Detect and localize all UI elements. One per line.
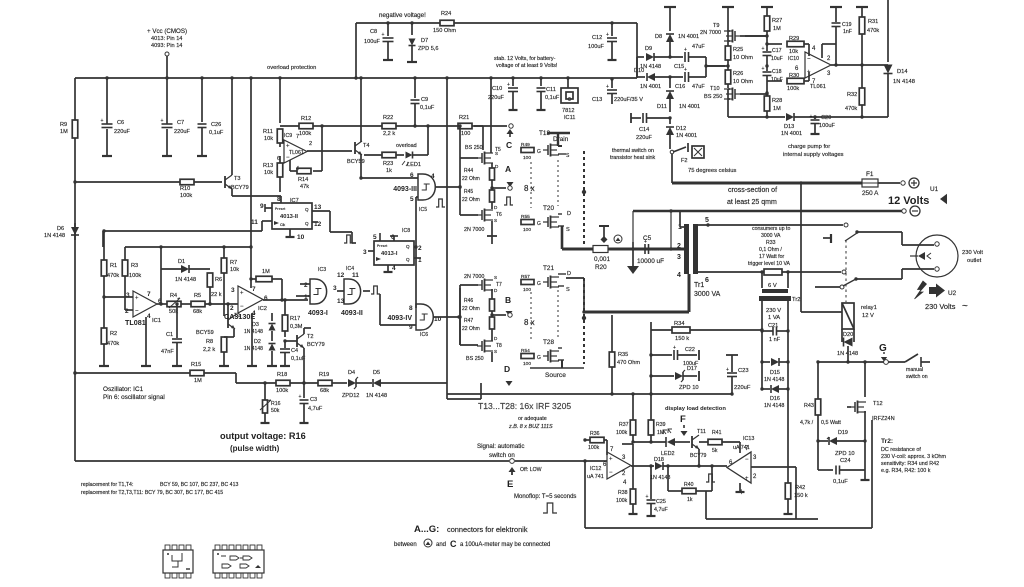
svg-text:6: 6 (705, 277, 709, 284)
diode D13 (781, 113, 817, 137)
wire T5 gate (458, 124, 478, 158)
resistor R10 (180, 179, 222, 199)
svg-text:+: + (135, 295, 139, 301)
svg-text:LED1: LED1 (407, 162, 421, 168)
diode D2 (244, 331, 276, 362)
svg-text:BCY 59, BC 107, BC 237, BC 413: BCY 59, BC 107, BC 237, BC 413 (160, 482, 238, 488)
wire IC7 top (277, 196, 299, 204)
ground C3 (300, 419, 309, 423)
svg-text:1N 4148: 1N 4148 (764, 403, 784, 409)
wire relay to G (846, 346, 849, 364)
svg-text:11: 11 (352, 272, 359, 279)
diode D10 (634, 57, 683, 90)
node D (492, 352, 513, 386)
svg-text:+: + (609, 457, 613, 463)
svg-text:4,7uF: 4,7uF (308, 406, 323, 412)
diode D16 (760, 362, 789, 409)
capacitor C16 (675, 67, 706, 90)
diode D1 (161, 247, 210, 283)
ground C10 (509, 106, 518, 110)
svg-text:1N 4001: 1N 4001 (640, 84, 661, 90)
svg-text:replacement for T1,T4:: replacement for T1,T4: (81, 482, 133, 488)
switch upper (823, 223, 859, 243)
svg-text:R21: R21 (459, 115, 469, 121)
svg-text:C18: C18 (772, 69, 782, 75)
svg-text:R13: R13 (263, 163, 273, 169)
gate 4093-IV IC6 (387, 304, 441, 338)
wire R27 gate (745, 35, 767, 37)
svg-text:B: B (505, 295, 511, 305)
IC7 pin10 (290, 229, 305, 241)
svg-text:2N 7000: 2N 7000 (464, 227, 484, 233)
svg-text:C: C (506, 140, 512, 150)
svg-text:10k: 10k (264, 170, 273, 176)
svg-text:1M: 1M (773, 26, 781, 32)
svg-text:47k: 47k (300, 184, 309, 190)
svg-text:BCY59: BCY59 (196, 330, 214, 336)
svg-text:C24: C24 (840, 458, 851, 464)
IC7 pin13 (312, 204, 330, 211)
wire T5 drain top (0, 0, 1, 1)
label watt (821, 420, 841, 426)
resistor R23 (364, 152, 404, 174)
svg-text:IC11: IC11 (564, 115, 575, 121)
display load label (665, 406, 726, 412)
wire bias bus left (73, 371, 190, 374)
IC7 pin11 (251, 219, 272, 226)
svg-text:charge pump for: charge pump for (788, 144, 830, 150)
svg-text:IC12: IC12 (590, 466, 601, 472)
svg-text:IC13: IC13 (743, 436, 754, 442)
resistor R38 (616, 444, 636, 510)
svg-text:3: 3 (126, 292, 130, 299)
wire charge out right (815, 115, 888, 118)
svg-text:10: 10 (297, 234, 305, 241)
driver box corner (447, 383, 481, 399)
wire top supply bus (75, 77, 568, 79)
wire IC7 Q13 route (330, 211, 356, 243)
ground C1 (172, 362, 182, 366)
svg-text:U2: U2 (948, 290, 957, 297)
svg-text:IC2: IC2 (258, 306, 267, 312)
ground arrow C5 (627, 249, 639, 274)
svg-text:R36: R36 (590, 431, 600, 437)
svg-text:220uF: 220uF (488, 95, 504, 101)
svg-text:−: − (609, 470, 613, 476)
wire IC2 output (263, 298, 308, 301)
wire C15 C16 join (704, 57, 725, 77)
resistor R17 (282, 298, 303, 337)
svg-text:+: + (762, 46, 765, 52)
resistor R15 (190, 362, 236, 384)
svg-text:A...G:: A...G: (414, 524, 439, 535)
charge pump label (783, 144, 844, 158)
overload protection label (267, 65, 316, 71)
svg-text:0,5 Watt: 0,5 Watt (821, 420, 841, 426)
230 Volts label (925, 301, 968, 312)
resistor R27 (761, 7, 782, 40)
svg-text:220uF: 220uF (734, 385, 751, 391)
wire to outlet top (857, 232, 934, 245)
resistor R40 (668, 466, 712, 503)
svg-text:C6: C6 (117, 120, 124, 126)
ground R8 (219, 362, 229, 366)
svg-text:Preset: Preset (275, 207, 286, 211)
svg-text:R20: R20 (595, 264, 607, 271)
svg-text:ZPD 10: ZPD 10 (679, 385, 699, 391)
svg-text:consumers up to: consumers up to (752, 226, 790, 232)
transistor T20 mosfet (543, 214, 570, 233)
svg-text:trigger level 10 VA: trigger level 10 VA (748, 261, 791, 267)
wire charge out (728, 115, 785, 118)
resistor R9 (60, 120, 78, 138)
ground R16 (261, 419, 270, 423)
wire C18 to R30 (767, 80, 782, 82)
dashed relay link (845, 240, 847, 302)
svg-text:0,1 Ohm /: 0,1 Ohm / (759, 247, 782, 253)
svg-text:F: F (680, 414, 686, 425)
capacitor C25 (646, 466, 669, 513)
transistor T11 (690, 429, 707, 459)
svg-text:1N 4148: 1N 4148 (764, 377, 784, 383)
svg-text:S: S (566, 287, 570, 293)
transistor T12 mosfet (847, 401, 895, 423)
svg-text:+: + (507, 82, 510, 88)
svg-text:22 Ohm: 22 Ohm (462, 197, 480, 203)
connector E arrow (507, 467, 542, 490)
IC8 pin2 (414, 245, 422, 252)
resistor R29 (787, 36, 809, 56)
resistor R26 (725, 66, 753, 88)
ground IC2 pin4 (247, 313, 257, 366)
svg-text:2: 2 (125, 308, 129, 315)
svg-text:negative voltage!: negative voltage! (379, 12, 426, 19)
svg-text:D: D (567, 211, 571, 217)
wire left col (102, 231, 104, 247)
svg-text:S: S (495, 151, 498, 156)
wire IC8 Q to 4093-IV (415, 247, 417, 306)
svg-text:+: + (286, 143, 290, 149)
svg-text:R22: R22 (383, 115, 393, 121)
wire IC7 to osc (103, 221, 262, 231)
svg-text:ZPD 10: ZPD 10 (835, 451, 855, 457)
svg-text:D3: D3 (252, 322, 259, 328)
wire R25 join (706, 65, 728, 67)
capacitor C7 (161, 76, 191, 152)
svg-text:BCY79: BCY79 (307, 342, 325, 348)
wire F1 to terminal (878, 182, 900, 184)
wire osc top (125, 245, 252, 248)
ground R38 (629, 510, 638, 514)
svg-text:C22: C22 (685, 347, 695, 353)
svg-text:or adequate: or adequate (518, 416, 547, 422)
dashed right column upper (582, 151, 586, 246)
Tr1 pin4 (677, 272, 681, 279)
svg-text:C10: C10 (492, 86, 502, 92)
resistor R30 (787, 72, 809, 92)
wire C17 to R29 (767, 43, 782, 45)
wire gate driver feed lower (458, 288, 461, 345)
svg-text:R42: R42 (795, 485, 805, 491)
svg-text:100k: 100k (276, 388, 288, 394)
svg-text:10 Ohm: 10 Ohm (733, 55, 753, 61)
svg-text:R34: R34 (674, 321, 685, 327)
svg-text:Off: LOW: Off: LOW (520, 467, 542, 473)
svg-text:1N 4148: 1N 4148 (244, 346, 263, 352)
svg-text:230 Volts: 230 Volts (925, 302, 956, 311)
svg-text:D18: D18 (654, 457, 664, 463)
svg-text:replacement for T2,T3,T11: BCY: replacement for T2,T3,T11: BCY 79, BC 30… (81, 490, 223, 496)
wire negative rail (354, 23, 440, 80)
svg-text:D1: D1 (178, 259, 185, 265)
IC8 pin5 (373, 233, 380, 241)
capacitor C5 (631, 235, 664, 265)
svg-text:R27: R27 (772, 18, 782, 24)
svg-text:R40: R40 (684, 482, 694, 488)
svg-text:−: − (745, 457, 749, 463)
LED LED2 (661, 429, 690, 457)
wire T3 emitter (232, 189, 281, 196)
resistor R2 (101, 328, 119, 362)
svg-text:10uF: 10uF (771, 77, 783, 83)
svg-text:470k: 470k (867, 28, 879, 34)
wire minus bus (633, 209, 904, 250)
svg-text:+: + (646, 494, 649, 500)
potentiometer R4 (167, 293, 191, 315)
svg-text:150 k: 150 k (675, 336, 689, 342)
wire IC1 output (157, 269, 167, 306)
svg-text:D8: D8 (655, 34, 662, 40)
T13 to T28 label (478, 401, 571, 430)
capacitor C10 (488, 76, 518, 106)
wire detection bus (447, 376, 732, 396)
svg-text:IC9: IC9 (284, 133, 292, 139)
svg-text:R45: R45 (464, 189, 473, 195)
svg-text:IC10: IC10 (788, 56, 799, 62)
transistor T7 (464, 274, 502, 293)
svg-text:D9: D9 (645, 46, 652, 52)
svg-text:8 x: 8 x (524, 184, 535, 193)
svg-text:C1: C1 (166, 332, 173, 338)
resistor R19 (318, 372, 347, 394)
svg-text:cross-section of: cross-section of (728, 187, 777, 194)
svg-text:17 Watt for: 17 Watt for (759, 254, 784, 260)
resistor R45 (462, 189, 495, 209)
diode D15 (760, 358, 789, 383)
transistor T2 (285, 334, 325, 348)
svg-text:2N 7000: 2N 7000 (464, 274, 484, 280)
svg-text:4013-II: 4013-II (280, 214, 298, 220)
svg-text:220uF: 220uF (174, 129, 190, 135)
svg-text:230 Volt: 230 Volt (962, 250, 983, 256)
ground IC1 pin4 (141, 317, 151, 366)
node A (492, 164, 514, 190)
svg-text:100: 100 (523, 155, 531, 161)
LED LED1 (396, 143, 428, 168)
capacitor C6 (101, 76, 131, 152)
svg-text:R11: R11 (263, 129, 273, 135)
svg-text:2: 2 (309, 141, 312, 147)
svg-text:1N 4148: 1N 4148 (893, 79, 915, 85)
svg-text:150 k: 150 k (794, 493, 808, 499)
svg-text:G: G (537, 281, 541, 287)
svg-text:4,7k /: 4,7k / (800, 420, 814, 426)
diode D4 zener (342, 370, 372, 399)
gate 4093-II IC4 (337, 266, 363, 317)
wire R34 vert right (0, 0, 1, 1)
resistor R7 (221, 247, 239, 316)
wire T10 gate (740, 92, 769, 95)
resistor R31 (856, 7, 879, 65)
svg-text:4013-I: 4013-I (381, 251, 398, 257)
outlet label (962, 250, 983, 264)
switch lower (815, 270, 858, 289)
svg-text:R6: R6 (215, 277, 222, 283)
ground C12 C13 (608, 56, 617, 60)
svg-text:D4: D4 (348, 370, 355, 376)
svg-text:47uF: 47uF (692, 44, 705, 50)
svg-text:1M: 1M (262, 269, 270, 275)
resistor R34 (672, 321, 764, 342)
svg-text:(pulse width): (pulse width) (230, 444, 280, 453)
svg-text:IC5: IC5 (419, 207, 427, 213)
op-amp IC12 (587, 447, 631, 486)
diode D12 (666, 118, 697, 149)
wire IC3 inputs (296, 284, 310, 296)
svg-text:D10: D10 (634, 68, 644, 74)
wire T7 gate (460, 285, 478, 345)
wire IC10 out (831, 44, 888, 67)
svg-text:10000 uF: 10000 uF (637, 258, 664, 265)
svg-text:S: S (494, 275, 497, 280)
svg-text:T20: T20 (543, 205, 554, 212)
monoflop label (514, 494, 576, 500)
dashed right column lower (582, 278, 586, 364)
svg-text:R41: R41 (712, 430, 722, 436)
thick battery bus (562, 248, 686, 251)
Tr1 pin2 (677, 243, 686, 250)
svg-text:C12: C12 (592, 35, 602, 41)
svg-text:1N 4148: 1N 4148 (366, 393, 387, 399)
svg-text:6 V: 6 V (768, 283, 777, 289)
svg-text:S: S (494, 349, 497, 354)
svg-text:C25: C25 (656, 499, 666, 505)
transistor T6 (464, 205, 502, 233)
svg-text:7: 7 (252, 286, 256, 293)
resistor R6 (207, 273, 222, 306)
svg-text:output voltage: R16: output voltage: R16 (220, 431, 306, 441)
svg-text:470k: 470k (845, 106, 857, 112)
wire IC9 output (307, 150, 352, 152)
svg-text:D14: D14 (897, 69, 908, 75)
thermal switch F2 (670, 143, 704, 164)
resistor R21 (396, 115, 483, 137)
svg-text:C9: C9 (421, 97, 428, 103)
ground IC7 (286, 233, 295, 237)
resistor R24 (433, 11, 456, 34)
svg-text:R18: R18 (277, 372, 287, 378)
svg-text:T3: T3 (234, 176, 241, 182)
wire T21 drain to Tr1 (566, 274, 689, 314)
pulse symbol monoflop (543, 503, 557, 513)
resistor R13 (263, 156, 283, 192)
svg-text:230 V-coil: approx. 3 kOhm: 230 V-coil: approx. 3 kOhm (881, 454, 947, 460)
svg-text:R30: R30 (789, 73, 799, 79)
capacitor C1 (161, 302, 182, 362)
transistor T28 mosfet (543, 348, 564, 363)
svg-text:10k: 10k (230, 267, 239, 273)
ground C6 (102, 152, 112, 156)
svg-text:R17: R17 (290, 316, 300, 322)
wire T12 drain (863, 360, 866, 397)
svg-text:150 Ohm: 150 Ohm (433, 28, 456, 34)
transistor T10 (704, 86, 740, 117)
wire left rail (74, 78, 76, 373)
svg-text:5: 5 (373, 234, 377, 241)
svg-text:13: 13 (314, 204, 322, 211)
svg-text:4013: Pin 14: 4013: Pin 14 (151, 36, 182, 42)
wire T9 gate (740, 35, 767, 37)
svg-text:Q: Q (406, 244, 410, 249)
svg-text:100k: 100k (299, 131, 311, 137)
ground IC8 (384, 268, 393, 272)
svg-text:22 k: 22 k (211, 292, 222, 298)
relay coil relay1 (799, 181, 876, 329)
transistor T9 (700, 7, 740, 46)
svg-text:IRFZ24N: IRFZ24N (872, 416, 895, 422)
svg-text:+ Vcc (CMOS): + Vcc (CMOS) (147, 28, 187, 35)
wire IC9 feedback (313, 126, 322, 171)
diode D20 (837, 329, 858, 357)
wire IC1 pin3 (104, 296, 133, 298)
svg-text:1 nF: 1 nF (769, 337, 781, 343)
wire Tr2 sec right (786, 301, 789, 362)
svg-text:R24: R24 (441, 11, 451, 17)
svg-text:1N 4001: 1N 4001 (678, 34, 699, 40)
svg-text:2: 2 (418, 245, 422, 252)
svg-text:9: 9 (260, 203, 264, 210)
svg-text:uA 741: uA 741 (587, 474, 604, 480)
svg-text:4: 4 (431, 173, 435, 180)
wire G row (816, 360, 905, 363)
svg-text:T21: T21 (543, 265, 554, 272)
wire IC12 fb (622, 443, 633, 445)
svg-text:+: + (382, 32, 385, 38)
capacitor C17 (762, 40, 783, 66)
wire T20 source thick (561, 226, 564, 249)
shunt R20 (593, 246, 610, 272)
ground IC13 (736, 483, 745, 492)
wire R10 row (73, 180, 180, 183)
ground D7 (407, 58, 417, 62)
svg-text:z.B. 8 x BUZ 111S: z.B. 8 x BUZ 111S (508, 424, 553, 430)
connector E (510, 459, 585, 464)
svg-text:220uF: 220uF (636, 135, 652, 141)
wire Tr1 sec bottom (698, 272, 762, 284)
pulse symbol driver upper (504, 197, 513, 205)
wire gate driver feed upper (0, 0, 1, 1)
svg-text:Q: Q (406, 257, 410, 262)
wire source (530, 360, 584, 379)
svg-text:connectors for elektronik: connectors for elektronik (447, 525, 528, 534)
svg-text:1N 4148: 1N 4148 (44, 233, 65, 239)
diode D9 (637, 23, 683, 70)
wire F2 down (671, 154, 673, 183)
svg-text:G: G (537, 221, 541, 227)
svg-text:C19: C19 (842, 22, 852, 28)
12 Volts label (888, 194, 947, 207)
transistor T5 (465, 145, 501, 169)
